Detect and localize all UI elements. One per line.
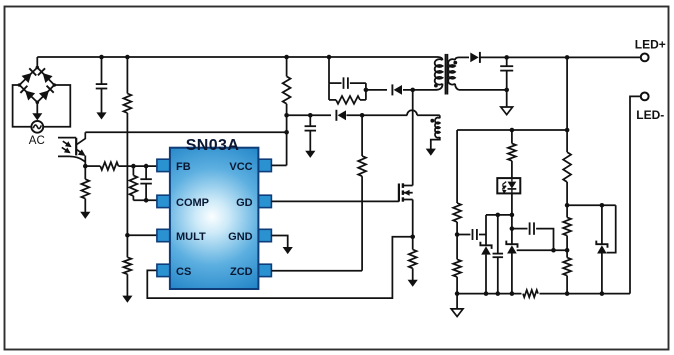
svg-text:LED+: LED+: [635, 37, 666, 51]
svg-text:FB: FB: [176, 161, 191, 173]
svg-text:GD: GD: [236, 197, 253, 209]
svg-text:CS: CS: [176, 266, 191, 278]
svg-text:VCC: VCC: [229, 161, 252, 173]
svg-text:ZCD: ZCD: [230, 266, 253, 278]
svg-text:MULT: MULT: [176, 231, 206, 243]
svg-text:AC: AC: [29, 135, 45, 147]
svg-text:GND: GND: [228, 231, 253, 243]
svg-text:LED-: LED-: [636, 108, 664, 122]
svg-text:SN03A: SN03A: [186, 137, 240, 154]
svg-text:COMP: COMP: [176, 197, 209, 209]
